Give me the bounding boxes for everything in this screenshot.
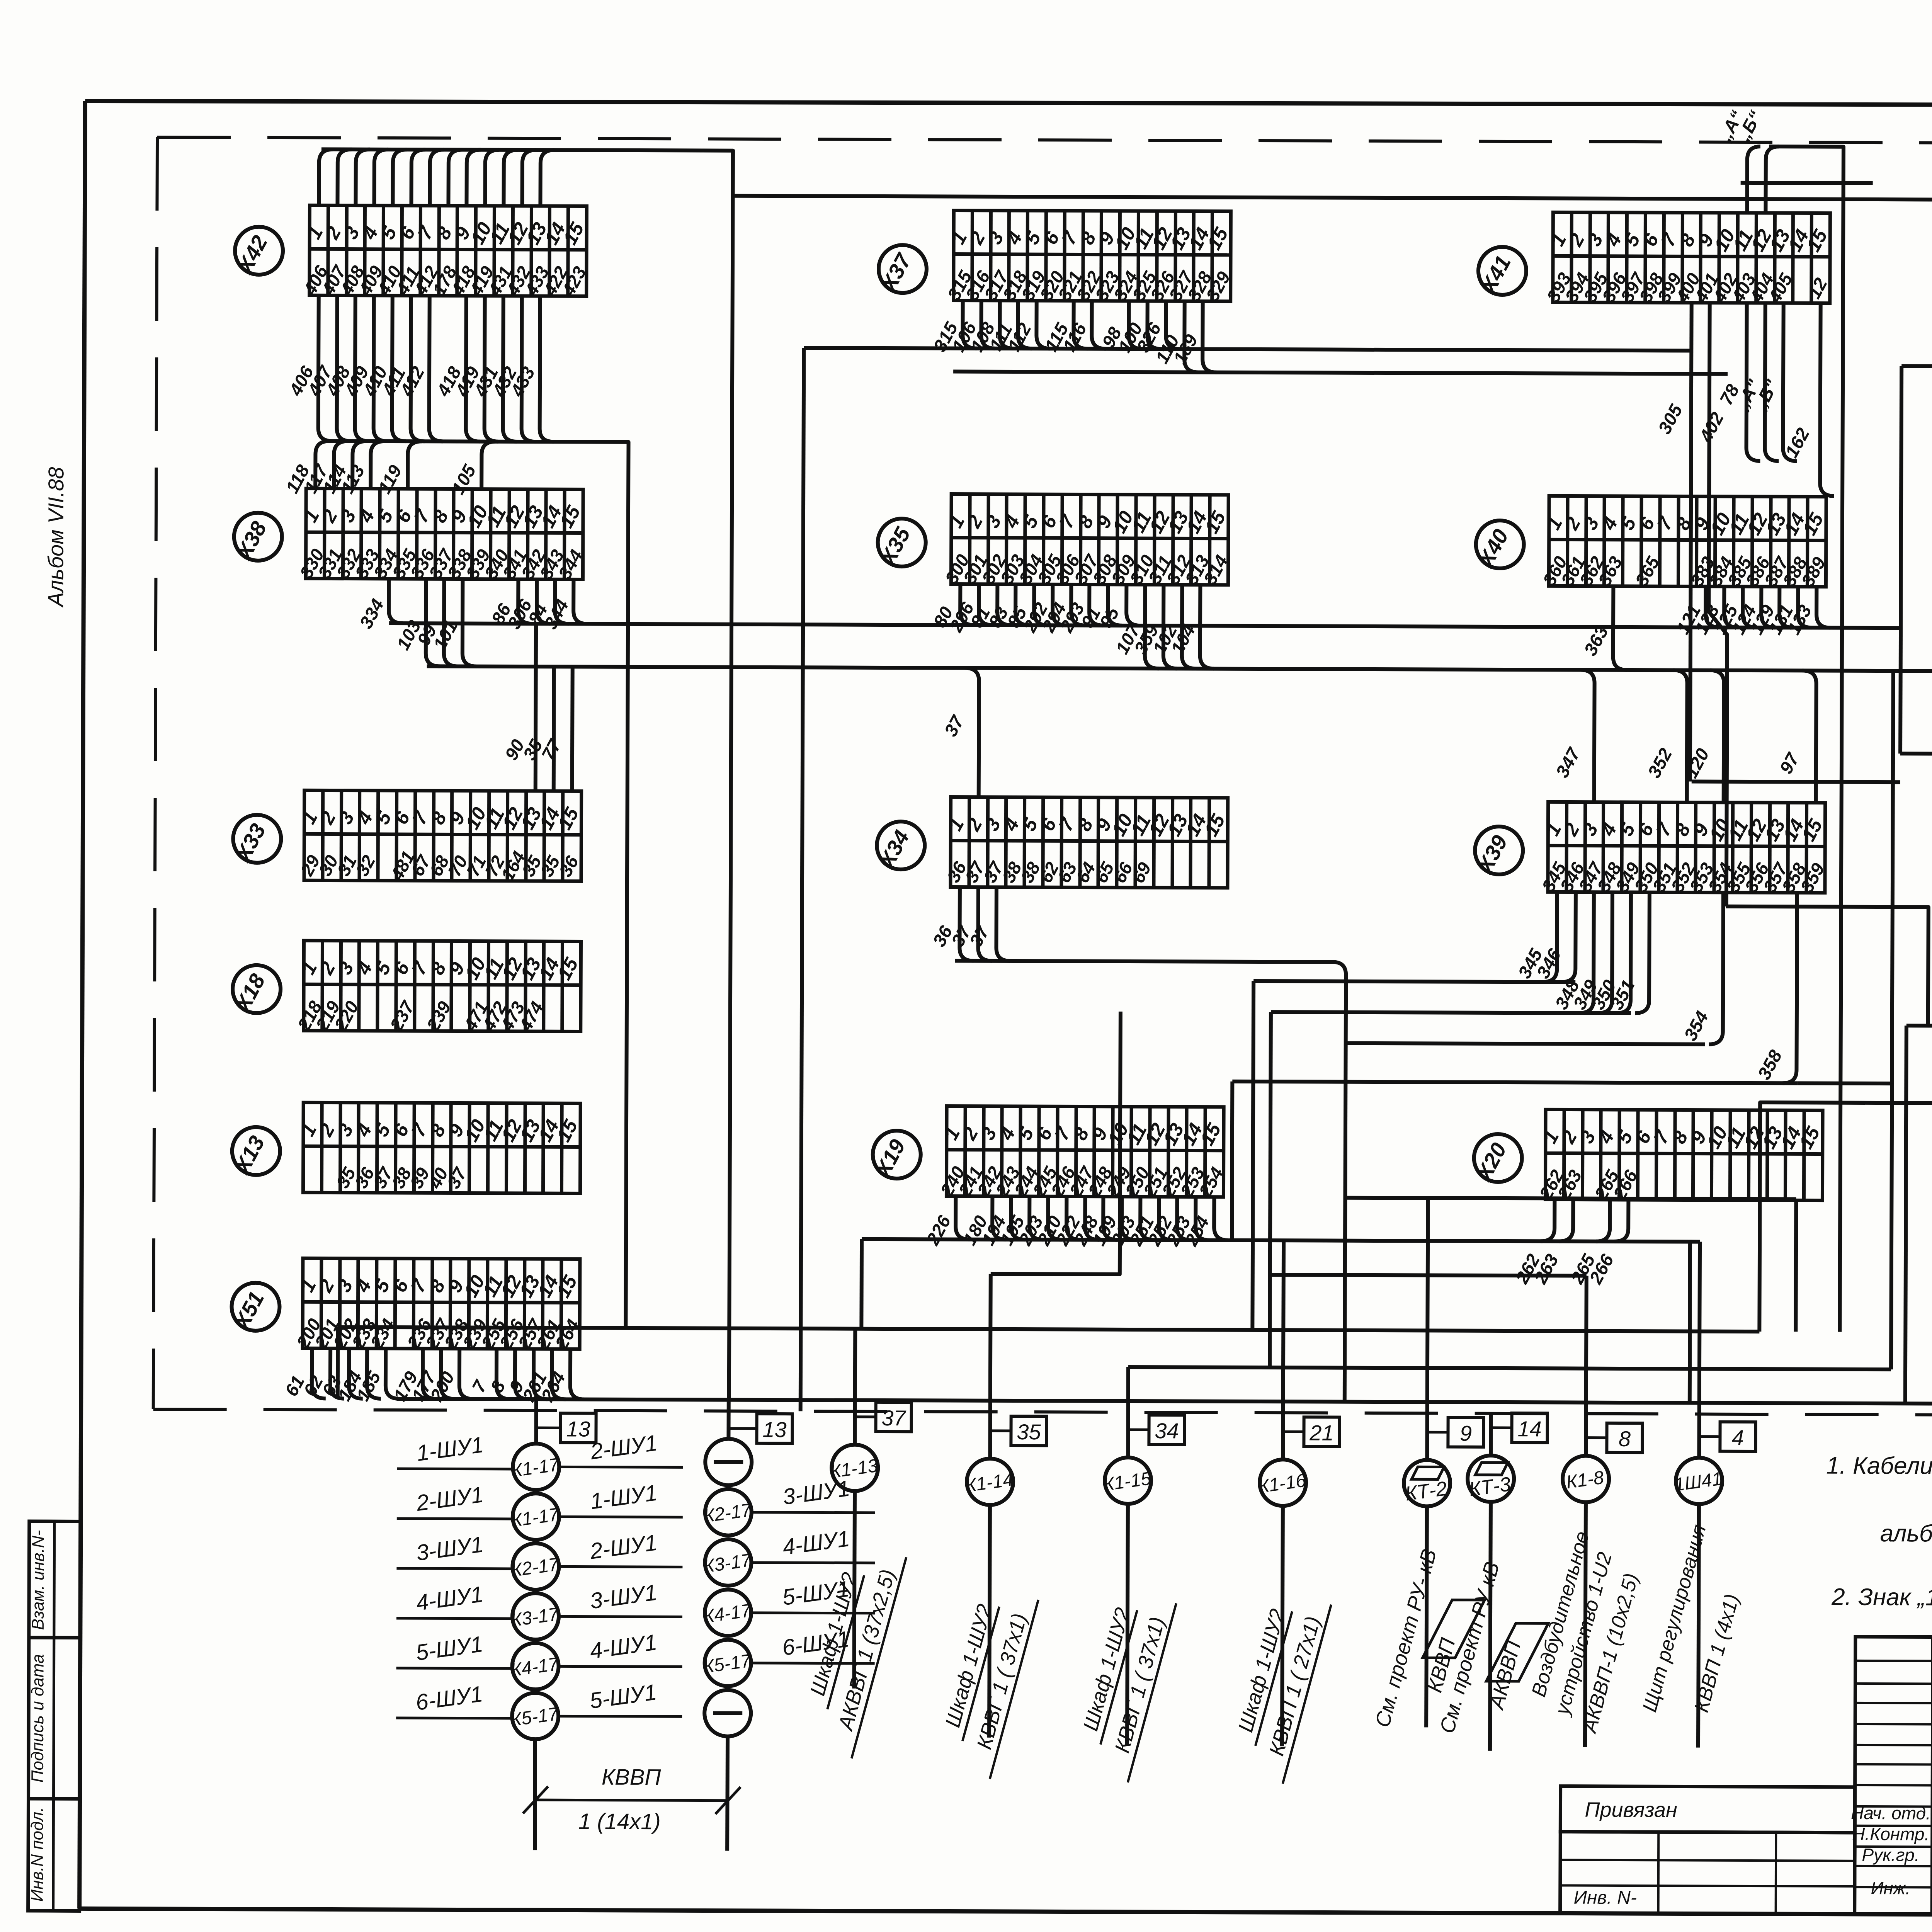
device circle К1-17 <box>397 1429 683 1490</box>
X35 bottom stubs <box>929 584 1214 668</box>
wire bus y3211 X19-X20 left <box>862 1239 1232 1240</box>
svg-text:альбом IХ. 88: альбом IХ. 88 <box>1880 1520 1932 1547</box>
wire riser KT-3 <box>1489 1413 1493 1454</box>
svg-text:Рук.гр.: Рук.гр. <box>1862 1845 1919 1865</box>
device circle К4-17 <box>396 1629 682 1690</box>
cable КТ-2 <box>1371 1506 1485 1730</box>
device circle К5-17 <box>702 1626 875 1687</box>
wire riser K1-16 <box>1283 1240 1284 1458</box>
device circle К3-17 <box>702 1526 875 1586</box>
wire bus y1732 to X52-top <box>426 666 1932 828</box>
cable К1-16 <box>1234 1506 1332 1784</box>
cable K1-8 <box>1527 1503 1643 1747</box>
svg-text:1 (14х1): 1 (14х1) <box>578 1809 661 1834</box>
cable number box 8 <box>1607 1423 1642 1452</box>
svg-text:14: 14 <box>1517 1417 1541 1441</box>
X42 top stub wires to bus <box>319 149 554 206</box>
wire vertical 4897 <box>1797 1083 1892 1369</box>
connector designator circle X19 <box>870 1131 921 1182</box>
wire riser K1-13 <box>853 1329 857 1444</box>
wire riser KT-2 <box>1344 1198 1428 1459</box>
wire riser 1Sh41 <box>1689 1242 1700 1457</box>
wire bus y2650 X52-bottom <box>1906 1026 1932 1027</box>
device circle К2-17 <box>396 1529 682 1590</box>
device circle К3-17 <box>396 1579 682 1640</box>
device circle К1-16 <box>1257 1459 1307 1506</box>
connector designator circle X42 <box>232 227 283 278</box>
connector designator circle X41 <box>1475 247 1526 298</box>
wire bus y943 X45-bottom <box>1901 366 1932 367</box>
cable number box 13 <box>757 1414 792 1443</box>
svg-text:21: 21 <box>1309 1420 1333 1445</box>
svg-text:35: 35 <box>1017 1420 1041 1444</box>
lead line K1-8 <box>1586 1436 1607 1439</box>
wire vertical 4897 upper <box>1892 671 1893 1083</box>
wire bus A-B drop <box>1765 146 1844 1332</box>
terminal block X37 <box>943 210 1234 304</box>
svg-text:КВВП: КВВП <box>602 1765 662 1790</box>
connector designator circle X38 <box>231 513 282 564</box>
device circle КТ-3 <box>1468 1456 1514 1502</box>
svg-text:Альбом VII.88: Альбом VII.88 <box>43 467 68 607</box>
connector designator circle X34 <box>874 821 925 873</box>
svg-text:1. Кабели к датчикам см: 1. Кабели к датчикам см. раздел АТХ1 <box>1826 1452 1932 1481</box>
wire bus y2490 X34-bottom <box>955 961 1346 1043</box>
X38 top stubs <box>282 441 496 498</box>
svg-text:4: 4 <box>1732 1425 1744 1450</box>
wire bus y3211 X19-X20 right <box>1231 1240 1690 1403</box>
cable number box 37 <box>876 1402 912 1432</box>
terminal block X33 <box>296 790 583 885</box>
wire vertical 877 <box>336 1327 340 1399</box>
connector designator circle X40 <box>1473 520 1524 572</box>
wire vertical 3483 <box>1345 1043 1346 1402</box>
wire bus y3443 <box>338 1327 1759 1332</box>
connector designator circle X35 <box>875 519 926 570</box>
X39 bottom stubs <box>1514 892 1797 1083</box>
svg-text:13: 13 <box>566 1417 590 1441</box>
cable number box 4 <box>1720 1422 1755 1451</box>
device circle К1-14 <box>964 1459 1015 1505</box>
svg-text:Инв. N-: Инв. N- <box>1574 1888 1637 1908</box>
wire vertical 3190 <box>1232 1082 1232 1240</box>
device circle К1-17 <box>397 1479 683 1540</box>
wire vertical 2232 <box>859 1239 864 1329</box>
album label <box>43 467 68 607</box>
svg-text:37: 37 <box>881 1406 906 1430</box>
terminal block X18 <box>293 940 583 1035</box>
X34 top stub 37 <box>940 668 979 797</box>
lead line КТ-3 <box>1491 1426 1512 1429</box>
X51 bottom stubs <box>281 1348 584 1405</box>
wire bus y965 <box>953 372 1728 374</box>
KVVP cable bracket <box>523 1764 741 1835</box>
wire riser column2 <box>726 1400 730 1438</box>
svg-text:Подпись и дата: Подпись и дата <box>28 1654 48 1783</box>
terminal block X13 <box>296 1102 582 1193</box>
svg-text:Инж.: Инж. <box>1871 1878 1910 1898</box>
cable number box 21 <box>1304 1417 1339 1446</box>
cable 1Sh41 <box>1638 1505 1744 1748</box>
cable number box 9 <box>1448 1418 1483 1447</box>
device circle К2-17 <box>702 1475 875 1536</box>
wire long bus y512 <box>733 196 1932 200</box>
X40 bottom stubs <box>1580 586 1830 671</box>
svg-text:8: 8 <box>1619 1427 1631 1451</box>
terminal block X35 <box>941 494 1232 588</box>
device circle link <box>704 1690 751 1736</box>
X33 incoming wires 90 35 77 <box>500 624 573 791</box>
wire vertical 4916 <box>1900 366 1901 753</box>
wire riser column1 <box>534 1399 538 1442</box>
connector designator circle X33 <box>230 815 281 866</box>
wire bus y2850 <box>1759 1102 1932 1332</box>
svg-text:Н.Контр.: Н.Контр. <box>1852 1824 1929 1844</box>
device circle К1-15 <box>1102 1458 1153 1504</box>
device circle К4-17 <box>702 1576 875 1636</box>
svg-text:34: 34 <box>1155 1418 1179 1443</box>
wire vertical 4934 <box>1905 1026 1906 1403</box>
wire bus y2700 X39 354 <box>1346 1043 1705 1044</box>
dashed cabinet boundary <box>153 137 1932 1417</box>
connector designator circle X13 <box>229 1127 280 1179</box>
wire bus y1946 X43 89-90 <box>1900 753 1932 755</box>
title block <box>1560 1636 1932 1919</box>
terminal block X39 <box>1538 802 1829 896</box>
cable line column1 <box>533 1739 537 1850</box>
lead line К1-16 <box>1283 1430 1304 1433</box>
lead line 1Sh41 <box>1699 1435 1720 1438</box>
X42 bottom stubs <box>285 295 554 442</box>
terminal block X34 <box>943 797 1230 888</box>
svg-text:Взам. инв.N-: Взам. инв.N- <box>29 1530 48 1630</box>
wire bus y2343 wire402 <box>1726 906 1929 1026</box>
svg-text:Нач. отд.: Нач. отд. <box>1851 1803 1931 1823</box>
device circle К1-13 <box>829 1445 879 1491</box>
cable number box 35 <box>1011 1416 1046 1446</box>
device circle К1-8 <box>1563 1456 1609 1502</box>
wire bus y3540 <box>1128 1367 1891 1369</box>
svg-text:9: 9 <box>1460 1421 1472 1446</box>
svg-text:13: 13 <box>762 1417 786 1442</box>
terminal block X51 <box>292 1258 583 1353</box>
device circle link <box>705 1439 752 1485</box>
connector designator circle X51 <box>228 1283 279 1334</box>
wire vertical 3244 <box>1252 981 1253 1330</box>
wire riser K1-8 <box>1269 1275 1586 1455</box>
cable К1-14 <box>941 1505 1039 1779</box>
device circle КТ-2 <box>1404 1460 1451 1506</box>
svg-text:2. Знак „1“- номер нагнетат: 2. Знак „1“- номер нагнетателя <box>1831 1584 1932 1612</box>
wire bus y905 X37-bottom <box>804 348 1693 350</box>
svg-text:Привязан: Привязан <box>1585 1798 1677 1822</box>
wire bus y1150 X42-bottom/X38-top <box>320 441 628 1328</box>
device circle 1Ш41 <box>1673 1458 1724 1504</box>
connector designator circle X39 <box>1472 827 1523 878</box>
terminal block X40 <box>1539 496 1830 590</box>
lead line К1-14 <box>990 1429 1011 1432</box>
wire bus y2020 wire305 <box>1692 782 1900 782</box>
X37 bottom stubs <box>929 300 1217 372</box>
connector designator circle X18 <box>230 965 281 1017</box>
cable number box 13 <box>560 1413 596 1442</box>
X20 bottom stubs <box>1511 1199 1629 1287</box>
svg-text:Инв.N подл.: Инв.N подл. <box>28 1807 47 1902</box>
terminal block X20 <box>1535 1109 1825 1204</box>
wire vertical 2075 <box>801 348 804 1411</box>
X34 bottom stubs <box>929 887 1010 961</box>
cable line column2 <box>725 1736 730 1851</box>
wire vertical 4650 <box>1796 1199 1796 1332</box>
wire riser K1-14 <box>990 1011 1121 1458</box>
wire bus y3628 X51-bottom <box>397 1399 1932 1404</box>
arrow to box 13 col2 <box>729 1427 758 1430</box>
wire bus y1621 <box>389 623 1901 628</box>
wire bus y2540 X39 345-346 <box>1253 981 1575 982</box>
cable К1-13 <box>806 1491 906 1759</box>
X39 top stubs <box>1551 670 1816 803</box>
device circle К5-17 <box>396 1679 682 1740</box>
cable number box 14 <box>1512 1413 1547 1442</box>
left sidebar stamp boxes <box>28 1521 81 1911</box>
cable КТ-3 <box>1435 1502 1548 1751</box>
X41 top stubs A B <box>1711 107 1844 1332</box>
terminal block X42 <box>299 205 590 300</box>
X38 bottom stubs <box>355 579 587 667</box>
terminal block X19 <box>936 1106 1228 1201</box>
wire bus X42-top to vertical 1890 <box>318 149 733 1400</box>
arrow to box 13 col1 <box>536 1427 561 1429</box>
wire bus y2800 X39 358 <box>1232 1082 1798 1083</box>
terminal block X38 <box>296 488 587 583</box>
wire riser K1-15 <box>1126 1367 1130 1456</box>
X19 bottom stubs <box>922 1196 1228 1250</box>
wire vertical 3289 <box>1270 1012 1271 1367</box>
wire bus y2620 X39 348-351 <box>1271 1012 1631 1013</box>
wire bus y3100 <box>1428 1198 1796 1199</box>
X41 bottom stubs <box>1652 303 1834 906</box>
lead line К1-13 <box>855 1415 876 1418</box>
cable К1-15 <box>1079 1504 1177 1783</box>
connector designator circle X37 <box>876 245 927 296</box>
cable number box 34 <box>1149 1415 1184 1444</box>
connector designator circle X20 <box>1471 1134 1522 1185</box>
notes <box>1826 1452 1932 1612</box>
terminal block X41 <box>1543 212 1832 307</box>
lead line КТ-2 <box>1427 1431 1448 1434</box>
lead line К1-15 <box>1128 1428 1149 1431</box>
